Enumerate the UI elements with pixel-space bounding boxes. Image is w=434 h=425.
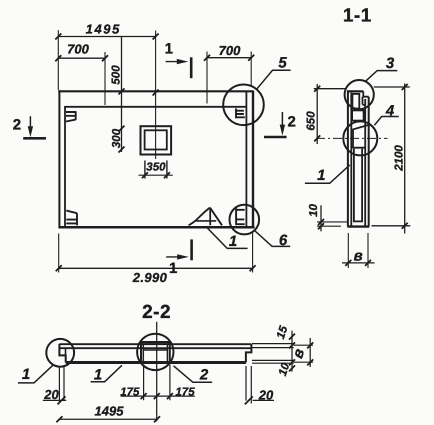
section 2-2 middle frame inner top <box>143 349 167 351</box>
dim 2990 dimension line <box>59 267 253 269</box>
leader and label 6 <box>255 231 291 247</box>
dim 700 right extension lines <box>207 52 251 104</box>
section marker 1 top: arrow line <box>166 61 182 63</box>
section 1-1 left wall inner line <box>350 93 352 226</box>
section 1-1 top step notch <box>363 91 369 105</box>
section 1-1 inner groove rectangle <box>352 94 359 109</box>
vertical centre line of panel <box>155 31 157 160</box>
embedded plate symbol top-right <box>236 108 245 118</box>
detail circle 4 <box>343 121 377 155</box>
dim B ticks <box>345 260 371 266</box>
dim 2990 ticks <box>56 265 256 271</box>
section 1-1 inner channel U <box>354 149 362 222</box>
dim 1495 top: dimension line <box>58 36 155 38</box>
section 1-1 top cap <box>347 90 363 92</box>
section 2-2 slab top face line 1 <box>60 343 252 345</box>
dim 500/300 vertical line <box>121 37 123 153</box>
leader for mark 1 (bottom edge of plan) <box>206 227 248 249</box>
dim 20 right tick <box>245 396 253 404</box>
panel top edge outer line <box>58 90 254 92</box>
section 2-2 slab bottom face <box>66 361 246 364</box>
svg-text:1: 1 <box>165 41 173 58</box>
dim 15/B/10 extension pairs right of 2-2 <box>252 344 294 364</box>
section 2-2 right end rebate profile <box>246 344 252 363</box>
section 2-2 left rebate inner edge <box>65 348 67 355</box>
dim 175 extension lines <box>144 365 170 401</box>
svg-text:1495: 1495 <box>86 22 121 37</box>
section 2-2 slab top face line 2 <box>60 347 252 349</box>
svg-text:1: 1 <box>22 366 30 383</box>
section 1-1 mid-height rebate profile <box>353 125 369 148</box>
dim 10 extension lines (section 1-1 bottom) <box>317 222 348 226</box>
section 1-1 left wall outer line <box>347 90 349 226</box>
svg-text:3: 3 <box>386 55 395 72</box>
svg-text:2: 2 <box>288 113 296 130</box>
dim 20 left dimension line <box>43 399 66 401</box>
leader for mark 1 at left end of 2-2 <box>18 365 53 383</box>
svg-text:1: 1 <box>229 233 237 250</box>
section marker 2 left: cutting bar <box>23 137 46 140</box>
svg-text:2: 2 <box>13 117 21 134</box>
leader for label 3 <box>366 71 398 82</box>
dim 500/300 ticks <box>119 88 125 152</box>
leader for label 4 <box>374 117 398 126</box>
svg-text:10: 10 <box>308 204 320 217</box>
panel right edge outer line <box>252 91 254 228</box>
svg-text:300: 300 <box>111 128 123 148</box>
svg-text:2.990: 2.990 <box>132 270 168 285</box>
panel bottom edge <box>59 226 255 229</box>
section 2-2 left end rebate profile <box>59 344 65 363</box>
section marker 1 bottom: arrowhead <box>177 254 189 259</box>
dim 20 right dimension line <box>253 399 274 401</box>
drain spout base tick <box>196 220 216 222</box>
dim 700 right ticks <box>204 55 254 61</box>
detail circle on left end of 2-2 <box>46 339 74 367</box>
embedded plate symbol bottom-right <box>236 208 245 225</box>
tick on centre line at panel top <box>153 90 159 96</box>
dim 1495 ticks <box>55 34 158 40</box>
dim 700 left extension line <box>104 52 106 105</box>
dim B (2-2) dimension line <box>309 338 311 367</box>
svg-text:15: 15 <box>275 324 291 340</box>
section 1-1 inner box below groove <box>352 110 364 120</box>
opening inner rectangle <box>145 130 167 149</box>
svg-text:2: 2 <box>199 367 209 384</box>
dim 20 left tick <box>58 396 66 404</box>
section 1-1 bottom cap <box>347 225 369 227</box>
detail circle 6 (bottom-right corner) <box>230 205 260 235</box>
leader for mark 1 at middle of 2-2 <box>91 365 122 381</box>
embedded plate symbol top-left <box>66 111 76 121</box>
section marker 1 bottom: arrow line <box>166 256 183 258</box>
section 1-1 right wall outer line <box>368 97 370 227</box>
svg-text:175: 175 <box>120 387 140 399</box>
detail circle 3 <box>345 80 374 109</box>
leader and label 5 <box>257 70 291 89</box>
dim 1495 bottom ticks <box>56 416 160 422</box>
svg-text:650: 650 <box>306 111 318 131</box>
dim 2100 ticks <box>402 84 408 229</box>
panel left edge outer line <box>58 90 60 228</box>
dim B dimension line <box>342 262 375 264</box>
dim 350 extension bars <box>145 161 167 179</box>
drain spout triangle on bottom edge <box>189 208 222 226</box>
section 1-1 right wall inner line <box>364 99 366 226</box>
drain spout centre rib <box>209 208 211 225</box>
svg-text:20: 20 <box>258 388 274 403</box>
dim 175 dimension line <box>121 395 195 397</box>
section marker 2 right: cutting bar <box>264 136 287 139</box>
svg-text:1: 1 <box>317 167 325 184</box>
dim B extension lines (section 1-1 width) <box>348 233 368 268</box>
dim 10 dimension line <box>320 205 322 231</box>
svg-text:350: 350 <box>146 162 166 174</box>
svg-text:175: 175 <box>175 387 195 399</box>
svg-text:1: 1 <box>169 260 177 277</box>
section marker 2 right: arrowhead <box>280 125 285 136</box>
section marker 2 right: arrow line <box>281 112 283 130</box>
dim 15/10 dimension line <box>291 331 293 372</box>
dim 2100 bottom extension line <box>372 225 411 227</box>
svg-text:2100: 2100 <box>393 145 405 172</box>
svg-text:в: в <box>354 247 363 264</box>
svg-text:700: 700 <box>67 41 89 56</box>
leader for mark 2 in 2-2 <box>174 366 213 383</box>
dim 650 ticks <box>314 86 320 142</box>
svg-text:500: 500 <box>111 65 123 85</box>
section 2-2 vertical centre line <box>156 322 158 422</box>
dim 20 left extension lines <box>59 366 64 402</box>
section 1-1 horizontal centre line <box>316 137 388 139</box>
svg-text:1495: 1495 <box>95 404 125 419</box>
dim 15/10 ticks <box>289 334 295 372</box>
panel top edge inner line <box>65 106 247 108</box>
section marker 2 left: arrow line <box>29 116 31 131</box>
dim 700 left ticks <box>55 55 108 61</box>
section marker 2 left: arrowhead <box>28 126 33 137</box>
dim 350 ticks <box>142 172 170 178</box>
detail circle on middle of 2-2 <box>137 334 173 370</box>
dim 2100 dimension line <box>404 84 406 234</box>
dim 2990 extension lines <box>59 231 253 273</box>
detail circle 5 (top-right corner) <box>223 85 264 126</box>
dim B right extension singles <box>294 345 313 362</box>
svg-text:5: 5 <box>278 55 287 72</box>
dim 650 dimension line <box>316 84 318 144</box>
dim 175 ticks <box>141 393 173 399</box>
svg-text:1: 1 <box>94 367 102 384</box>
section marker 1 top: arrowhead <box>177 59 189 64</box>
section 2-2 middle frame inner sides <box>143 344 167 362</box>
dim 1495 bottom dimension line <box>59 418 157 420</box>
dim 350 dimension line <box>139 174 173 176</box>
dim B (2-2) ticks <box>307 342 313 365</box>
dim 1495 left extension line <box>57 30 59 90</box>
dim 10 ticks <box>318 219 324 229</box>
panel right edge inner line <box>245 92 247 228</box>
dim 20 right extension lines <box>246 366 251 404</box>
section marker 1 top: cutting bar <box>190 57 193 78</box>
opening outer rectangle <box>141 126 172 154</box>
svg-text:4: 4 <box>385 103 395 120</box>
section 2-2 middle frame outer sides <box>141 342 170 362</box>
section 2-2 middle opening frame top <box>141 341 170 343</box>
svg-text:1-1: 1-1 <box>343 6 372 27</box>
svg-text:20: 20 <box>43 387 59 402</box>
embedded plate symbol bottom-left <box>66 211 77 226</box>
svg-text:700: 700 <box>219 43 241 58</box>
leader for mark 1 in section 1-1 <box>305 165 350 183</box>
svg-text:2-2: 2-2 <box>142 302 171 323</box>
dim 650/2100 top extension line <box>314 87 410 89</box>
panel left edge inner line <box>64 106 66 227</box>
dim 700 right: dimension line <box>207 57 251 59</box>
section marker 1 bottom: cutting bar <box>190 239 193 260</box>
dim 700 left: dimension line <box>58 57 105 59</box>
svg-text:6: 6 <box>279 232 288 249</box>
